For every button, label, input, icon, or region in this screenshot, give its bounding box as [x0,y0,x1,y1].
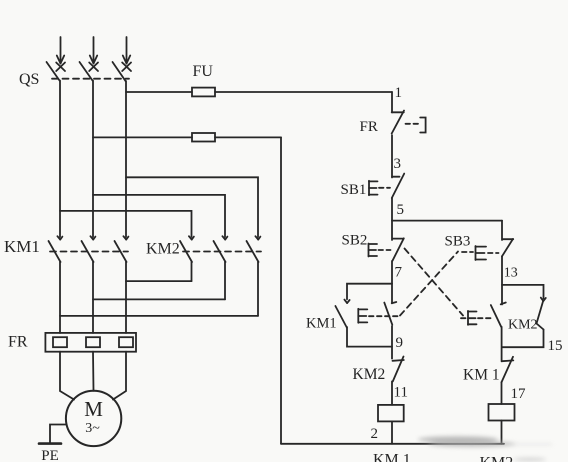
switch QS pole 2 blade [80,62,93,81]
svg-text:KM 1: KM 1 [373,452,411,462]
switch QS pole 1 blade [47,62,60,81]
svg-text:KM2: KM2 [146,241,180,258]
button SB3 NO start reverse [462,239,513,260]
ground PE bar [39,442,61,445]
svg-text:13: 13 [504,265,518,280]
svg-text:2: 2 [371,426,379,442]
svg-text:FU: FU [193,63,214,80]
QS linkage dashed [52,78,129,80]
wire FU2 to control return [215,136,281,138]
svg-text:9: 9 [396,335,404,351]
contactor KM2 main contact 1 [180,236,194,262]
FR heater element 1 [53,337,67,347]
fuse FU2 [192,133,215,142]
KM2 self-hold branch wires [502,285,544,299]
supply arrow L2 [89,37,98,71]
thermal relay FR heater box [45,333,136,352]
contactor KM1 NC interlock contact [502,357,514,383]
contactor KM1 main contact 2 [82,236,96,262]
wire KM1 pole2 output [92,262,94,333]
wire L3 vertical [125,81,127,237]
wire KM1 pole1 output [59,262,61,333]
wire node1 vertical [391,92,393,113]
svg-text:5: 5 [397,202,405,218]
KM1 self-hold branch lower wire [347,327,392,347]
contactor KM2 auxiliary NO contact [537,298,546,330]
wire coil KM1 to node2 [391,421,393,443]
switch QS pole 3 blade [113,62,126,81]
wire PE from motor [50,425,67,444]
wire FR to motor V [92,352,95,391]
FR heater element 3 [119,337,133,347]
contactor KM1 auxiliary NO contact [335,300,349,328]
coil KM2 [489,404,515,421]
button SB3 NC contact (in KM1 branch) [358,302,400,325]
supply arrow L3 [122,37,131,71]
wire bottom return [281,443,504,445]
wire L3 tap to KM2 pole 3 [126,177,258,237]
wire crossover KM2p1 to L3 line [126,280,192,282]
svg-text:KM2: KM2 [353,366,386,383]
wire KM1 pole3 output [125,262,127,333]
wire L1 tap to KM2 pole 1 [60,211,192,237]
wire node5 to right branch [392,220,502,222]
wire crossover KM2p3 to L1 line [60,315,258,317]
supply arrow L1 [56,37,65,71]
svg-text:KM1: KM1 [306,316,337,332]
svg-text:M: M [84,397,103,421]
wire node1 to node3 [391,135,393,177]
KM1 self-hold branch wires [347,284,392,300]
wire control return vertical [280,137,282,443]
contactor KM2 main contact 3 [247,236,261,262]
svg-text:SB1: SB1 [341,182,367,198]
fuse FU1 [192,88,215,97]
wire FR to motor U [60,352,74,400]
wire crossover KM2p2 to L2 line [93,298,225,300]
svg-text:11: 11 [394,385,408,401]
wire L2 to fuse FU2 [93,136,192,138]
wire L2 tap to KM2 pole 2 [93,195,225,237]
wire KM2 pole1 output [191,262,193,281]
KM2 self-hold branch lower wire [502,330,544,348]
svg-text:FR: FR [8,334,28,351]
button SB2 NO start forward [369,238,404,260]
wire KM2 pole2 output [224,262,226,299]
svg-text:15: 15 [548,338,563,354]
wire coil KM2 to bottom return [501,421,503,444]
svg-text:17: 17 [511,386,527,402]
watermark smudge [418,436,552,461]
svg-text:KM1: KM1 [4,237,40,256]
svg-text:PE: PE [41,448,59,462]
contactor KM1 main contact 1 [49,236,63,262]
coil KM1 [378,405,404,422]
svg-text:1: 1 [395,85,403,101]
svg-text:SB3: SB3 [445,234,471,250]
svg-text:3: 3 [394,156,402,172]
KM1 linkage dashed [50,251,128,253]
svg-text:KM 1: KM 1 [463,367,500,384]
wire L2 vertical [92,81,94,238]
wire node3 to node5 [391,198,393,240]
KM2 linkage dashed [183,251,261,253]
svg-text:KM2: KM2 [508,318,538,333]
wire node13 down [501,256,503,304]
contactor KM2 NC interlock contact [393,357,404,382]
wire FR to motor W [113,352,126,400]
button SB2 NC contact (in KM2 branch) [461,303,506,327]
motor M circle [66,391,121,446]
wire FU1 to node 1 [215,91,392,93]
contactor KM1 main contact 3 [115,236,129,262]
svg-text:QS: QS [19,71,39,88]
wire node11 to coil KM1 [391,381,393,405]
svg-text:7: 7 [395,265,403,281]
wire node7 to SB3-NC [391,261,393,303]
wire SB3NC to node9 [391,326,393,359]
button SB1 NC stop [369,174,404,198]
dashed link SB3 to its NC contact [400,252,458,316]
svg-text:3~: 3~ [85,421,100,436]
FR heater element 2 [86,337,100,347]
wire L1 vertical [59,81,61,238]
wire node17 to coil KM2 [501,382,503,404]
wire SB2NC to node15 [501,327,503,362]
svg-text:SB2: SB2 [342,233,368,249]
svg-text:KM2: KM2 [480,455,514,462]
wire KM2 pole3 output [257,262,259,316]
contactor KM2 main contact 2 [214,236,228,262]
dashed link SB2 to its NC contact [405,249,464,316]
svg-text:FR: FR [360,119,378,135]
wire right branch top [501,221,503,240]
relay FR NC contact (control) [392,111,426,134]
wire L3 to fuse FU1 [126,91,192,93]
